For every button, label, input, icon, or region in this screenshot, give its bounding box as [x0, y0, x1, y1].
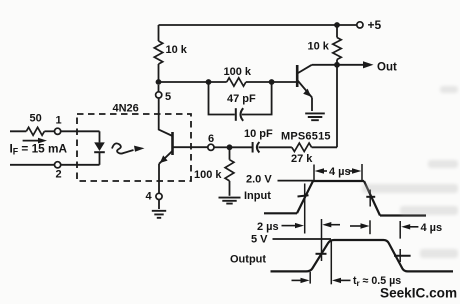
node pin6 junction [227, 144, 233, 150]
wire pin4 to ground [158, 200, 160, 210]
tick input rising 50% [304, 184, 306, 234]
svg-text:6: 6 [208, 133, 214, 145]
pin 1 terminal [55, 128, 61, 134]
resistor 10k right [333, 38, 341, 60]
resistor 50 [26, 127, 44, 135]
svg-text:Output: Output [230, 254, 266, 266]
svg-text:27 k: 27 k [291, 153, 313, 165]
svg-text:10 k: 10 k [166, 44, 188, 56]
waveform output falling edge [384, 240, 409, 271]
wire 10k right bottom lead [336, 60, 338, 65]
cross stroke output falling [394, 255, 411, 257]
pin 2 terminal [55, 162, 61, 168]
tick output rising 50% long [321, 219, 323, 261]
wire 47pF left branch [209, 82, 235, 115]
waveform input low flat left [264, 212, 297, 214]
wire pin6 to junction [214, 146, 230, 148]
wire 100k left lead [209, 81, 227, 83]
svg-text:Out: Out [377, 62, 397, 74]
svg-text:2: 2 [56, 169, 62, 181]
pin 5 terminal [156, 92, 162, 98]
resistor 27k [292, 143, 312, 151]
wire base MPS6515 [272, 81, 297, 83]
svg-text:IF = 15 mA: IF = 15 mA [10, 142, 68, 157]
wire left vertical bottom [158, 64, 160, 82]
svg-text:+5: +5 [368, 18, 382, 32]
svg-text:50: 50 [30, 113, 42, 125]
ground MPS6515 emitter [305, 113, 325, 120]
wire resistor to pin1 [44, 130, 54, 132]
phototransistor of 4N26 [158, 85, 160, 92]
wire top rail +5 [159, 24, 357, 26]
svg-text:1: 1 [56, 115, 62, 127]
wire 10pF left lead [230, 146, 253, 148]
waveform input falling edge [364, 181, 380, 216]
resistor 100k top [227, 78, 246, 86]
tick 4us left [313, 165, 315, 181]
capacitor C 10pF [252, 142, 254, 153]
capacitor C 47pF [235, 108, 237, 121]
svg-text:2 µs: 2 µs [257, 221, 279, 233]
svg-text:100 k: 100 k [194, 169, 222, 181]
waveform input top flat [313, 180, 364, 182]
svg-text:2.0 V: 2.0 V [246, 174, 272, 186]
pin 6 terminal [208, 144, 214, 150]
wire out arrow [337, 64, 365, 66]
resistor 10k left [154, 41, 162, 64]
node 100k right junction [269, 79, 275, 85]
wire pin5 to collector [159, 98, 173, 136]
resistor 100k vertical [229, 147, 231, 159]
wire 100k vertical bottom lead [229, 181, 231, 196]
waveform input rising edge [297, 181, 313, 213]
node top rail junction [334, 22, 340, 28]
phototransistor emitter [159, 151, 173, 164]
wire 27k left lead [259, 146, 292, 148]
waveform output rising edge [306, 240, 334, 271]
cross stroke input rising [298, 195, 309, 196]
waveform output top flat [334, 239, 384, 241]
tick input falling lower [369, 220, 371, 234]
svg-text:4 µs: 4 µs [329, 166, 351, 178]
tick output rise top long [330, 240, 332, 284]
wire feedback vertical [336, 65, 338, 148]
scan ghost artifacts [362, 86, 458, 258]
svg-text:4N26: 4N26 [113, 103, 139, 115]
transistor Q1 MPS6515 [296, 65, 299, 87]
ground 100k [219, 198, 241, 204]
wire left vertical top [158, 25, 160, 41]
terminal +5 [357, 22, 363, 28]
svg-text:5: 5 [165, 91, 171, 103]
dimension tr arrows [292, 279, 302, 281]
wire input bottom [10, 164, 55, 166]
wire node row to 100k [159, 81, 209, 83]
wire 27k right lead [312, 146, 337, 148]
wire pin1 to LED [61, 130, 100, 132]
arrow IF current [23, 140, 40, 142]
svg-text:4: 4 [146, 191, 153, 203]
light emission squiggle arrow [112, 143, 134, 153]
waveform input low flat right [380, 214, 426, 216]
node 100k left junction [206, 79, 212, 85]
ground pin4 [152, 211, 166, 218]
tick tr left [309, 272, 311, 284]
wire 10k right top lead [336, 25, 338, 38]
svg-text:Input: Input [244, 190, 271, 202]
svg-text:SeekIC.com: SeekIC.com [380, 286, 457, 301]
cross stroke output rising [316, 253, 327, 255]
tick 4us right [361, 164, 363, 180]
svg-text:MPS6515: MPS6515 [281, 131, 331, 143]
svg-text:100 k: 100 k [224, 66, 252, 78]
wire phototransistor base to pin6 [173, 146, 208, 148]
phototransistor base bar [171, 132, 174, 155]
wire input top lead [10, 130, 26, 132]
svg-text:5 V: 5 V [251, 234, 268, 246]
svg-text:47 pF: 47 pF [227, 93, 256, 105]
diode LED of 4N26 [99, 131, 101, 142]
cross stroke input falling [366, 196, 375, 198]
svg-text:4 µs: 4 µs [421, 222, 443, 234]
dimension 4us top arrows [315, 168, 324, 174]
wire 47pF right branch [242, 82, 272, 115]
waveform output low flat right [408, 270, 453, 272]
wire 100k right lead [246, 81, 272, 83]
optocoupler U1 4N26 dashed box [77, 114, 191, 181]
pin 4 terminal [156, 193, 162, 199]
svg-text:10 k: 10 k [308, 41, 330, 53]
node out junction [334, 62, 340, 68]
wire pin2 to LED [61, 164, 100, 166]
tick 4us delay right [399, 221, 401, 262]
waveform output low flat left [271, 270, 307, 272]
node pin5 net junction [156, 79, 162, 85]
svg-text:10 pF: 10 pF [244, 128, 273, 140]
